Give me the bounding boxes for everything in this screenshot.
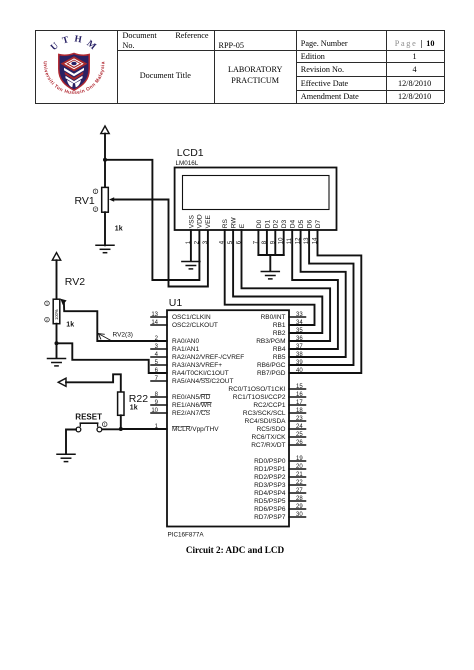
svg-text:RC1/T1OSI/CCP2: RC1/T1OSI/CCP2 <box>233 394 286 401</box>
wire LCD D4 to U1 RB4 <box>289 230 338 349</box>
svg-text:17: 17 <box>296 400 303 406</box>
power terminal +V (RV2) <box>52 253 60 261</box>
microcontroller U1 body <box>167 310 289 526</box>
svg-text:RC6/TX/CK: RC6/TX/CK <box>252 434 287 441</box>
power terminal +V (RV1) <box>101 126 109 134</box>
U1 pin 25 stub <box>289 436 306 438</box>
svg-text:RC2/CCP1: RC2/CCP1 <box>253 402 286 409</box>
svg-text:RC5/SDO: RC5/SDO <box>257 426 286 433</box>
svg-text:RD5/PSP5: RD5/PSP5 <box>254 498 286 505</box>
wire D0-D3 tie to ground <box>269 255 271 271</box>
table row divider 1 <box>117 50 444 51</box>
svg-text:D2: D2 <box>273 220 280 229</box>
svg-text:RA1/AN1: RA1/AN1 <box>172 346 199 353</box>
U1 pin 29 stub <box>289 508 306 510</box>
svg-text:D3: D3 <box>281 220 288 229</box>
U1 pin 18 stub <box>289 412 306 414</box>
svg-text:E: E <box>239 223 246 228</box>
table bottom border <box>35 103 444 104</box>
resistor R22 body <box>118 392 124 415</box>
svg-text:RC3/SCK/SCL: RC3/SCK/SCL <box>243 410 286 417</box>
svg-text:MCLR/Vpp/THV: MCLR/Vpp/THV <box>172 426 219 433</box>
header cell: Document Reference No. <box>123 31 209 40</box>
table divider col2/col3 <box>214 30 215 103</box>
svg-text:OSC1/CLKIN: OSC1/CLKIN <box>172 314 211 321</box>
U1 pin 16 stub <box>289 396 306 398</box>
U1 pin 27 stub <box>289 492 306 494</box>
svg-text:RV2: RV2 <box>65 276 85 288</box>
svg-text:38: 38 <box>296 352 303 358</box>
wire LCD D6 to U1 RB6 <box>289 230 354 365</box>
header cell: Page. Number <box>301 39 348 48</box>
svg-text:RE2/AN7/CS: RE2/AN7/CS <box>172 410 211 417</box>
U1 pin 33 stub <box>289 316 306 318</box>
wire RV2 bottom <box>56 324 58 344</box>
U1 pin 24 stub <box>289 428 306 430</box>
svg-text:26: 26 <box>296 440 303 446</box>
header cell: Effective Date / 12/8/2010 <box>301 79 348 88</box>
U1 pin 7 stub <box>151 380 167 382</box>
svg-text:D1: D1 <box>264 220 271 229</box>
RESET push button <box>76 423 102 432</box>
header cell: Amendment Date / 12/8/2010 <box>301 92 359 101</box>
svg-text:RV1: RV1 <box>75 195 95 207</box>
wire RV2 wiper to U1 RA0 <box>64 303 167 342</box>
LCD1 component body <box>175 168 337 231</box>
svg-text:R22: R22 <box>129 393 148 405</box>
RV1 wiper arrow <box>109 197 114 201</box>
table divider col4/col5 <box>386 30 387 103</box>
svg-text:RS: RS <box>222 219 229 229</box>
U1 pin 35 stub <box>289 332 306 334</box>
RV2 pin marker 2 <box>45 317 50 322</box>
svg-text:36: 36 <box>296 336 303 342</box>
U1 pin 15 stub <box>289 388 306 390</box>
svg-text:RE0/AN5/RD: RE0/AN5/RD <box>172 394 211 401</box>
svg-text:1: 1 <box>104 423 106 427</box>
U1 pin 10 stub <box>151 412 167 414</box>
svg-text:19: 19 <box>296 456 303 462</box>
U1 pin 40 stub <box>289 372 306 374</box>
svg-text:1: 1 <box>46 302 48 306</box>
svg-text:RB0/INT: RB0/INT <box>261 314 286 321</box>
ground (RESET) <box>57 454 75 461</box>
U1 pin 13 stub <box>151 316 167 318</box>
svg-text:RB5: RB5 <box>273 354 286 361</box>
svg-text:RB4: RB4 <box>273 346 286 353</box>
svg-text:RD3/PSP3: RD3/PSP3 <box>254 482 286 489</box>
svg-text:RB1: RB1 <box>273 322 286 329</box>
svg-text:RA3/AN3/VREF+: RA3/AN3/VREF+ <box>172 362 222 369</box>
power terminal +V (R22, pointing left) <box>58 378 66 386</box>
RV2 pin marker 1 <box>45 301 50 306</box>
U1 pin 37 stub <box>289 348 306 350</box>
svg-text:1k: 1k <box>115 225 123 232</box>
svg-text:VDD: VDD <box>197 214 204 228</box>
wire LCD D1 down <box>266 230 268 255</box>
ground (RV1) <box>96 245 114 252</box>
RESET pin marker <box>102 422 107 427</box>
svg-text:RA2/AN2/VREF-/CVREF: RA2/AN2/VREF-/CVREF <box>172 354 244 361</box>
U1 pin 36 stub <box>289 340 306 342</box>
svg-text:RE1/AN6/WR: RE1/AN6/WR <box>172 402 212 409</box>
svg-text:VEE: VEE <box>205 215 212 229</box>
svg-text:2: 2 <box>95 207 97 211</box>
table row divider 2 <box>296 62 444 63</box>
wire RV2 ground node to U1 RA4 <box>57 343 168 373</box>
wire R22 bottom to MCLR node <box>120 415 122 429</box>
wire VDD net: RV1 node to LCD VDD <box>105 160 199 280</box>
svg-text:18: 18 <box>296 408 303 414</box>
wire LCD RW to U1 RB2 <box>233 230 322 333</box>
svg-text:40: 40 <box>296 368 303 374</box>
svg-text:15: 15 <box>296 384 303 390</box>
table divider col1/col2 <box>117 30 118 103</box>
ground (LCD VSS) <box>182 262 200 269</box>
svg-text:D7: D7 <box>315 220 322 229</box>
svg-text:22: 22 <box>296 480 303 486</box>
U1 pin 5 stub <box>151 364 167 366</box>
table top border <box>35 30 444 31</box>
U1 pin 20 stub <box>289 468 306 470</box>
svg-text:33: 33 <box>296 312 303 318</box>
wire power to RV2 top <box>56 260 58 299</box>
header cell: RPP-05 <box>219 41 244 50</box>
wire power to RV1 top <box>104 134 106 188</box>
LCD1 display window <box>183 176 330 210</box>
svg-text:35: 35 <box>296 328 303 334</box>
svg-text:RD2/PSP2: RD2/PSP2 <box>254 474 286 481</box>
svg-text:D6: D6 <box>307 220 314 229</box>
svg-text:39: 39 <box>296 360 303 366</box>
svg-text:1k: 1k <box>66 321 74 328</box>
svg-text:RD0/PSP0: RD0/PSP0 <box>254 458 286 465</box>
wire LCD RS to U1 RB1 <box>225 230 315 325</box>
header cell: Revision No. / 4 <box>301 65 344 74</box>
svg-text:16: 16 <box>296 392 303 398</box>
U1 pin 4 stub <box>151 356 167 358</box>
svg-text:RW: RW <box>231 217 238 229</box>
svg-text:24: 24 <box>296 424 303 430</box>
U1 pin 39 stub <box>289 364 306 366</box>
svg-text:RD1/PSP1: RD1/PSP1 <box>254 466 286 473</box>
svg-text:PIC16F877A: PIC16F877A <box>168 532 205 539</box>
svg-text:23: 23 <box>296 416 303 422</box>
svg-text:25: 25 <box>296 432 303 438</box>
svg-text:RB6/PGC: RB6/PGC <box>257 362 286 369</box>
U1 pin 26 stub <box>289 444 306 446</box>
wire power to R22 top <box>66 374 121 392</box>
U1 pin 22 stub <box>289 484 306 486</box>
U1 pin 21 stub <box>289 476 306 478</box>
wire LCD D5 to U1 RB5 <box>289 230 346 357</box>
header cell: Document Title <box>117 71 214 80</box>
ground (RV2) <box>48 359 66 366</box>
wire RV1 bottom to ground <box>104 212 106 245</box>
U1 pin 6 stub <box>151 372 167 374</box>
svg-text:28: 28 <box>296 496 303 502</box>
U1 pin 23 stub <box>289 420 306 422</box>
svg-text:LM016L: LM016L <box>176 160 199 167</box>
svg-text:20: 20 <box>296 464 303 470</box>
wire LCD E to U1 RB3 <box>242 230 331 341</box>
svg-text:D5: D5 <box>298 220 305 229</box>
RV2 wiper arrow <box>60 299 66 305</box>
svg-text:RB3/PGM: RB3/PGM <box>256 338 285 345</box>
svg-text:RB7/PGD: RB7/PGD <box>257 370 286 377</box>
svg-text:RA4/T0CKI/C1OUT: RA4/T0CKI/C1OUT <box>172 370 229 377</box>
wire MCLR node to RESET switch <box>102 428 121 430</box>
U1 pin 9 stub <box>151 404 167 406</box>
potentiometer RV2 body <box>53 299 60 324</box>
wire LCD D2 down <box>274 230 276 255</box>
wire VEE net: RV1 wiper to LCD VEE <box>113 200 208 287</box>
junction RV2 ground node <box>55 341 59 345</box>
ground (LCD D0-D3) <box>261 272 279 279</box>
wire MCLR node to U1 MCLR <box>121 428 167 430</box>
header cell: Edition / 1 <box>301 52 325 61</box>
svg-text:2: 2 <box>46 318 48 322</box>
U1 pin 1 stub <box>151 428 167 430</box>
wire LCD D0 down <box>257 230 259 255</box>
svg-text:34: 34 <box>296 320 303 326</box>
U1 pin 2 stub <box>151 340 167 342</box>
svg-text:1: 1 <box>95 190 97 194</box>
U1 pin 19 stub <box>289 460 306 462</box>
U1 pin 17 stub <box>289 404 306 406</box>
svg-text:RA0/AN0: RA0/AN0 <box>172 338 199 345</box>
svg-text:RD7/PSP7: RD7/PSP7 <box>254 514 286 521</box>
U1 pin 34 stub <box>289 324 306 326</box>
svg-text:OSC2/CLKOUT: OSC2/CLKOUT <box>172 322 218 329</box>
svg-text:37: 37 <box>296 344 303 350</box>
junction MCLR node <box>119 427 123 431</box>
U1 pin 30 stub <box>289 516 306 518</box>
wire LCD VSS to ground <box>190 230 192 261</box>
svg-text:LCD1: LCD1 <box>177 147 204 159</box>
svg-text:10: 10 <box>151 408 158 414</box>
UTHM logo <box>39 30 109 100</box>
U1 pin 38 stub <box>289 356 306 358</box>
svg-text:30: 30 <box>296 512 303 518</box>
U1 pin 8 stub <box>151 396 167 398</box>
U1 pin 3 stub <box>151 348 167 350</box>
svg-text:U1: U1 <box>169 297 183 309</box>
table row divider 4 <box>296 90 444 91</box>
table row divider 3 <box>296 76 444 77</box>
wire RESET to ground <box>66 430 76 454</box>
RV1 pin marker 1 <box>93 189 98 194</box>
net label RV2(3) pointer <box>98 334 111 341</box>
wire LCD D3 down <box>283 230 285 255</box>
table divider col3/col4 <box>296 30 297 103</box>
svg-text:14: 14 <box>151 320 158 326</box>
svg-text:RC4/SDI/SDA: RC4/SDI/SDA <box>245 418 286 425</box>
RV1 pin marker 2 <box>93 207 98 212</box>
svg-text:RD6/PSP6: RD6/PSP6 <box>254 506 286 513</box>
header cell: LABORATORY PRACTICUM <box>214 64 297 86</box>
svg-text:100%: 100% <box>54 309 59 320</box>
svg-text:13: 13 <box>151 312 158 318</box>
svg-text:1k: 1k <box>130 405 138 412</box>
wire RV2 node down <box>56 343 58 358</box>
svg-text:RD4/PSP4: RD4/PSP4 <box>254 490 286 497</box>
svg-text:VSS: VSS <box>188 215 195 229</box>
svg-text:RC0/T1OSO/T1CKI: RC0/T1OSO/T1CKI <box>228 386 285 393</box>
svg-text:21: 21 <box>296 472 303 478</box>
header cell: Page | 10 <box>386 39 444 48</box>
svg-text:D4: D4 <box>290 220 297 229</box>
caption Circuit 2: ADC and LCD <box>135 545 335 555</box>
svg-text:RA5/AN4/SS/C2OUT: RA5/AN4/SS/C2OUT <box>172 378 233 385</box>
svg-text:27: 27 <box>296 488 303 494</box>
svg-text:RV2(3): RV2(3) <box>113 332 133 339</box>
svg-text:RESET: RESET <box>75 412 102 421</box>
svg-text:RC7/RX/DT: RC7/RX/DT <box>251 442 285 449</box>
wire bus D0-D3 tie <box>258 254 283 256</box>
potentiometer RV1 body <box>102 187 109 212</box>
wire LCD D7 to U1 RB7 <box>289 230 361 373</box>
svg-text:RB2: RB2 <box>273 330 286 337</box>
U1 pin 28 stub <box>289 500 306 502</box>
junction RV1 top node <box>103 158 107 162</box>
U1 pin 14 stub <box>151 324 167 326</box>
table left border <box>35 30 36 103</box>
svg-text:29: 29 <box>296 504 303 510</box>
svg-text:D0: D0 <box>256 220 263 229</box>
table right border <box>444 30 445 103</box>
